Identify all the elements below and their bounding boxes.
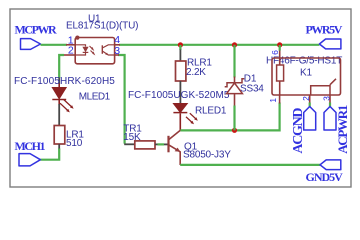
- wire LR1 to MCH1: [40, 149, 59, 160]
- port ACPWR1: [324, 105, 350, 154]
- svg-text:K1: K1: [300, 67, 312, 78]
- diode D1 SS34: [225, 45, 265, 131]
- U1 internal LED: [75, 45, 85, 47]
- junction dot at relay pin6: [277, 42, 282, 47]
- svg-text:FC-F1005UGK-520M5: FC-F1005UGK-520M5: [128, 90, 230, 101]
- wire U1 pin2 to MLED1 anode: [59, 55, 64, 78]
- svg-text:2.2K: 2.2K: [186, 67, 206, 78]
- port MCPWR: [15, 23, 58, 50]
- svg-text:PWR5V: PWR5V: [306, 23, 343, 37]
- junction dot at D1 top: [232, 42, 237, 47]
- junction dot at D1 bottom: [232, 128, 237, 133]
- resistor TR1: [123, 124, 158, 149]
- relay K1: [266, 45, 342, 107]
- port ACGND: [291, 107, 316, 154]
- resistor RLR1: [176, 45, 213, 104]
- svg-text:RLED1: RLED1: [195, 105, 227, 116]
- svg-text:MCH1: MCH1: [15, 139, 46, 153]
- relay switch: [311, 86, 330, 95]
- port GND5V: [306, 160, 344, 184]
- svg-text:510: 510: [66, 138, 83, 149]
- LED MLED1: [14, 76, 115, 126]
- svg-text:ACPWR1: ACPWR1: [335, 105, 350, 154]
- pin 2: [64, 54, 75, 56]
- wire node to relay pin1: [180, 103, 279, 131]
- relay coil: [277, 65, 284, 81]
- svg-text:GND5V: GND5V: [306, 170, 344, 184]
- U1 emission arrows: [90, 46, 94, 50]
- junction dot at RLR1 top: [178, 42, 183, 47]
- svg-text:2: 2: [68, 45, 74, 57]
- wire TR1 to Q1 base: [158, 143, 165, 145]
- pin 2: [309, 96, 311, 104]
- pin 4: [115, 44, 120, 46]
- svg-text:1: 1: [268, 98, 278, 103]
- wire D1 to bottom node: [233, 106, 235, 131]
- port MCH1: [15, 139, 46, 166]
- svg-text:6: 6: [270, 50, 280, 55]
- svg-text:MLED1: MLED1: [79, 91, 111, 102]
- svg-text:MCPWR: MCPWR: [15, 23, 58, 37]
- svg-text:3: 3: [114, 45, 120, 57]
- svg-text:3: 3: [322, 96, 332, 101]
- wire MCPWR to U1 pin1: [41, 44, 68, 46]
- wire U1 pin3 to TR1: [118, 55, 125, 144]
- svg-text:EL817S1(D)(TU): EL817S1(D)(TU): [66, 21, 138, 32]
- svg-text:S8050-J3Y: S8050-J3Y: [183, 150, 231, 161]
- LED RLED1: [128, 90, 230, 130]
- pin 3: [115, 54, 119, 56]
- MLED1 cathode stub: [58, 100, 60, 105]
- svg-text:FC-F1005HRK-620H5: FC-F1005HRK-620H5: [14, 76, 115, 87]
- wire top rail to D1: [233, 45, 235, 78]
- pin 1: [279, 96, 281, 104]
- pin 1: [66, 44, 75, 46]
- svg-text:SS34: SS34: [240, 84, 264, 95]
- wire top rail pin4 to PWR5V: [119, 44, 319, 46]
- bottom rail Q1 emitter to GND5V: [180, 164, 320, 166]
- svg-text:4: 4: [114, 34, 120, 46]
- port PWR5V: [306, 23, 343, 49]
- U1 phototransistor: [101, 45, 103, 54]
- svg-text:2: 2: [301, 96, 311, 101]
- resistor LR1: [54, 126, 84, 150]
- RLED1 cathode to node: [179, 113, 181, 130]
- pin 6: [279, 50, 281, 59]
- pin 3: [329, 96, 331, 104]
- transistor Q1: [169, 130, 232, 165]
- optocoupler U1 EL817S1(D)(TU): [64, 13, 138, 64]
